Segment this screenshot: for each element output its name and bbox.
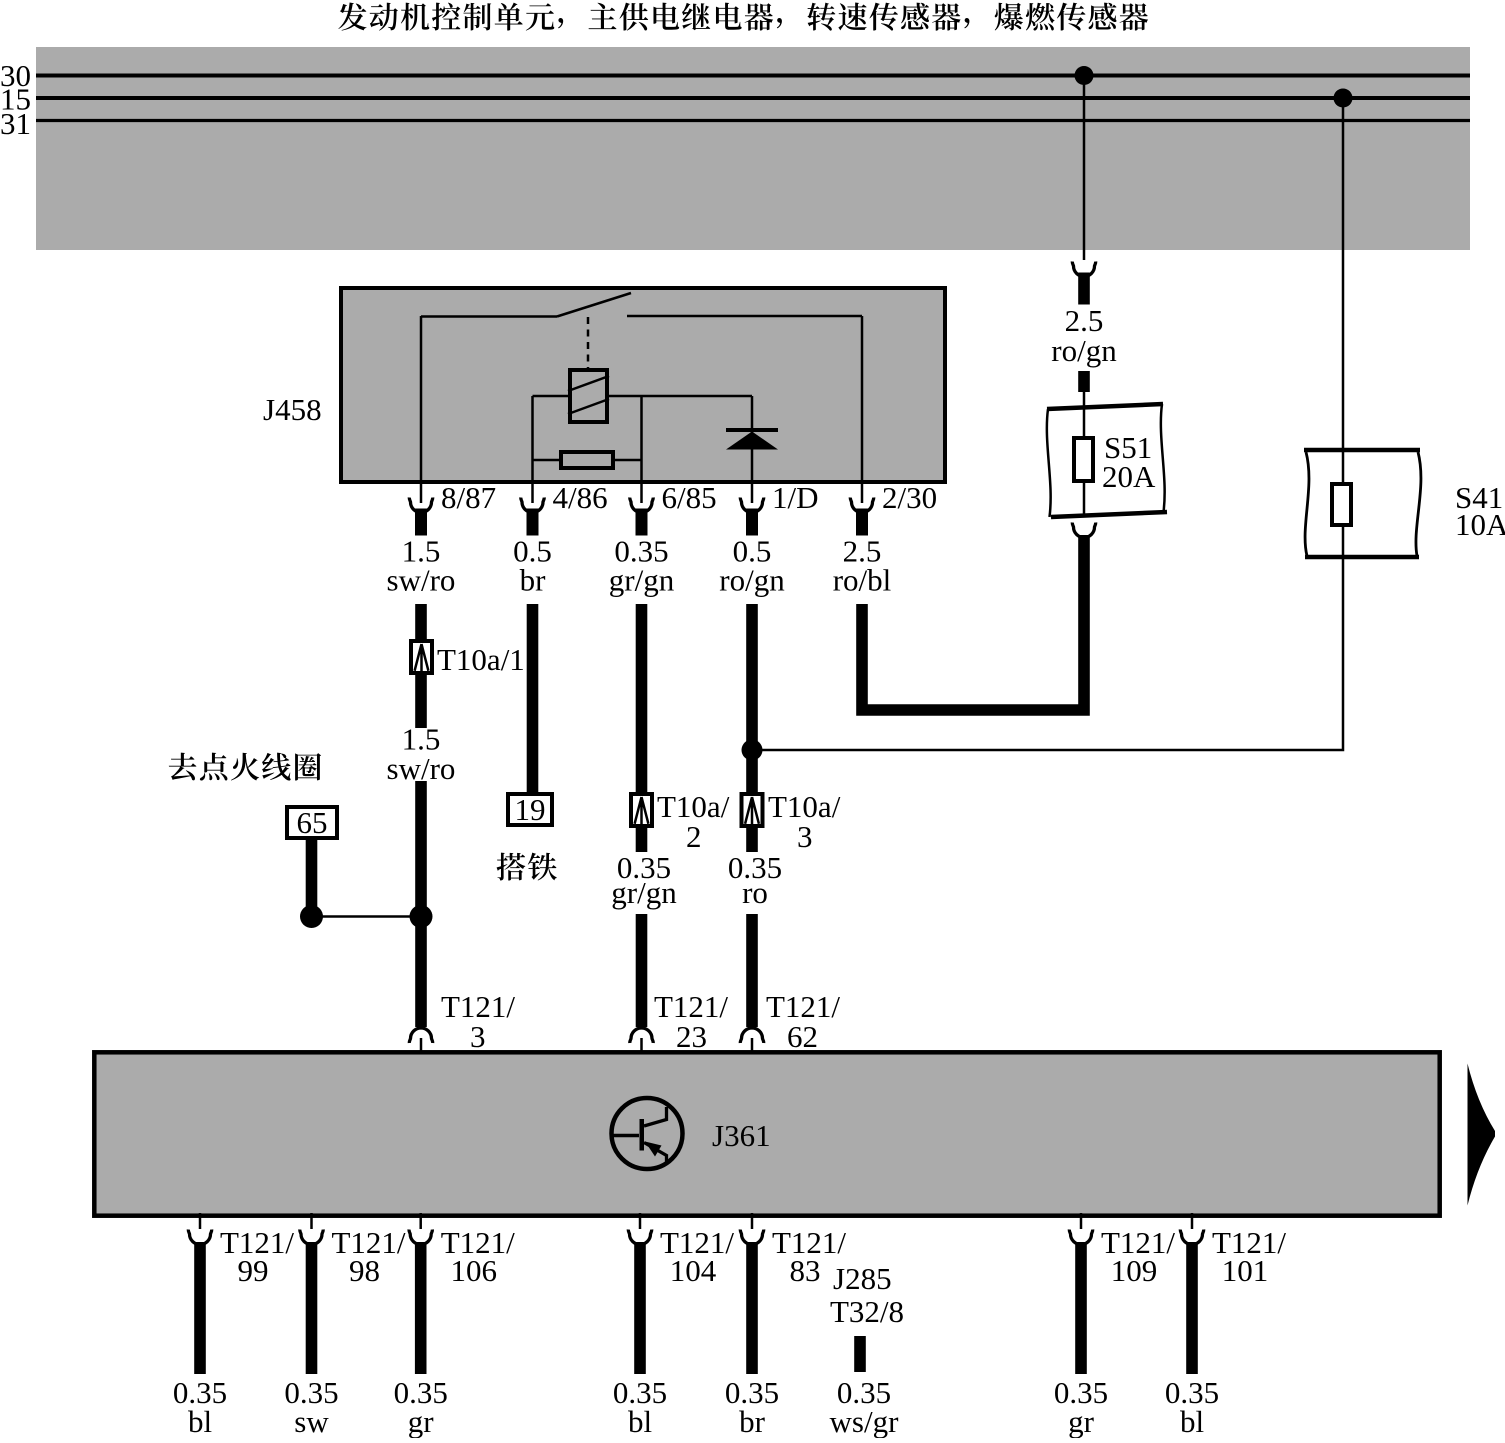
connector below S51 — [1072, 523, 1095, 538]
wire ro/gn to T10a/3 — [746, 750, 758, 792]
wire 0.35 bl — [1165, 1242, 1219, 1439]
junction node 65 wire — [300, 905, 323, 928]
wire label 0.35 gr/gn — [609, 534, 675, 598]
pin 6/85 connector — [630, 480, 717, 536]
wire switch left — [421, 315, 557, 318]
wire 0.35 sw — [284, 1242, 338, 1439]
wire label 1.5 sw/ro — [387, 722, 456, 787]
junction node sw/ro — [410, 905, 433, 928]
svg-text:1/D: 1/D — [772, 480, 819, 515]
svg-text:J458: J458 — [263, 392, 322, 427]
svg-text:4/86: 4/86 — [553, 480, 608, 515]
wire 0.35 bl — [613, 1242, 667, 1439]
svg-text:99: 99 — [238, 1253, 269, 1288]
svg-text:98: 98 — [349, 1253, 380, 1288]
wire resistor right — [615, 459, 642, 462]
pin T121/3 connector — [409, 989, 515, 1054]
junction node on bus 30 — [1075, 66, 1094, 85]
wire from bus 30 to S51 — [1083, 75, 1086, 260]
svg-text:bl: bl — [628, 1404, 652, 1438]
svg-text:2: 2 — [686, 819, 702, 854]
wire label 1.5 sw/ro — [387, 534, 456, 598]
wire 65 to sw/ro — [312, 915, 422, 918]
svg-text:bl: bl — [188, 1404, 212, 1438]
pin T121/83 connector — [740, 1213, 846, 1288]
junction node ro/gn — [742, 740, 763, 761]
resistor — [561, 452, 613, 468]
svg-text:3: 3 — [797, 819, 813, 854]
svg-text:31: 31 — [0, 106, 31, 141]
connector above S51 — [1072, 262, 1095, 277]
svg-text:ro/gn: ro/gn — [719, 563, 785, 598]
svg-text:83: 83 — [790, 1253, 821, 1288]
svg-text:62: 62 — [787, 1019, 818, 1054]
pin T121/109 connector — [1069, 1213, 1175, 1288]
wire stub 2.5 ro/gn — [1078, 273, 1090, 305]
wire label 0.35 ro — [728, 850, 782, 910]
wire ro middle — [746, 828, 758, 852]
pin T121/98 connector — [300, 1213, 406, 1288]
svg-text:6/85: 6/85 — [662, 480, 717, 515]
wire 0.35 ws/gr — [830, 1336, 900, 1439]
pin 4/86 connector — [521, 480, 608, 536]
svg-text:bl: bl — [1180, 1404, 1204, 1438]
pin 2/30 connector — [850, 480, 937, 536]
svg-text:3: 3 — [470, 1019, 486, 1054]
bus bar 15 — [0, 82, 1470, 117]
svg-text:109: 109 — [1111, 1253, 1158, 1288]
connector T10a/2 — [631, 789, 730, 854]
junction node on bus 15 — [1334, 89, 1353, 108]
fuse S51 20A — [1047, 392, 1167, 517]
ground terminal 19 — [508, 792, 552, 827]
svg-text:J285: J285 — [833, 1261, 892, 1296]
svg-text:19: 19 — [515, 792, 546, 827]
connector T10a/1 — [411, 641, 525, 677]
wire label 2.5 ro/gn — [1051, 303, 1117, 368]
wire coil right — [609, 395, 752, 398]
wire pin 2/30 vertical — [861, 316, 864, 503]
svg-text:8/87: 8/87 — [441, 480, 496, 515]
pin 8/87 connector — [409, 480, 496, 536]
wire pin 6/85 vertical — [640, 396, 643, 503]
svg-text:gr/gn: gr/gn — [609, 563, 675, 598]
pin T121/62 connector — [740, 989, 840, 1054]
wire switch right — [627, 315, 862, 318]
pin T121/104 connector — [628, 1213, 734, 1288]
svg-text:ws/gr: ws/gr — [830, 1404, 900, 1438]
wire br — [527, 604, 539, 792]
wire label 2.5 ro/bl — [833, 534, 892, 598]
svg-text:ro/bl: ro/bl — [833, 563, 892, 598]
wire ro/bl elbow to fuse S51 — [862, 535, 1084, 710]
wire from bus 15 through S41 to ro/gn junction — [758, 98, 1343, 750]
wire sw/ro lower — [415, 781, 427, 1027]
svg-text:23: 23 — [676, 1019, 707, 1054]
svg-text:20A: 20A — [1102, 459, 1156, 494]
pin T121/106 connector — [409, 1213, 515, 1288]
wire label 0.35 gr/gn — [611, 850, 677, 910]
svg-text:gr: gr — [1068, 1404, 1095, 1438]
svg-text:ro: ro — [742, 875, 768, 910]
wire resistor left — [533, 459, 560, 462]
svg-text:ro/gn: ro/gn — [1051, 333, 1117, 368]
wire pin 4/86 vertical — [531, 396, 534, 503]
power bus band — [36, 47, 1470, 250]
transistor symbol — [612, 1098, 683, 1169]
bus bar 30 — [0, 58, 1470, 93]
fuse S41 10A — [1304, 450, 1505, 557]
control unit J285 label — [830, 1261, 904, 1329]
bus bar 31 — [0, 106, 1470, 141]
svg-text:T10a/1: T10a/1 — [437, 642, 525, 677]
wire gr/gn upper — [636, 604, 648, 792]
svg-text:106: 106 — [450, 1253, 497, 1288]
relay J458 box — [263, 288, 945, 482]
terminal 65 box — [287, 805, 337, 840]
svg-text:gr: gr — [408, 1404, 435, 1438]
wire coil left — [533, 395, 569, 398]
control unit J361 box — [94, 1052, 1439, 1215]
wire sw/ro middle — [415, 675, 427, 728]
wire from 65 — [306, 840, 318, 910]
label ground text — [497, 853, 557, 881]
svg-text:br: br — [520, 563, 547, 598]
diode D1 — [726, 430, 778, 450]
wire pin 8/87 vertical — [420, 316, 423, 503]
pin T121/23 connector — [630, 989, 729, 1054]
svg-text:101: 101 — [1222, 1253, 1269, 1288]
svg-text:br: br — [739, 1404, 766, 1438]
switch blade — [557, 293, 631, 317]
wire label 0.5 ro/gn — [719, 534, 785, 598]
title text — [338, 3, 1148, 31]
wire 0.35 bl — [173, 1242, 227, 1439]
label to-ignition-coil text — [169, 753, 321, 781]
svg-text:J361: J361 — [712, 1118, 771, 1153]
wire ro/gn upper — [746, 604, 758, 750]
connector T10a/3 — [742, 789, 841, 854]
wire sw/ro upper — [415, 604, 427, 639]
svg-text:sw/ro: sw/ro — [387, 563, 456, 598]
arrow continuation right — [1468, 1064, 1496, 1206]
wire 0.35 gr — [394, 1242, 448, 1439]
relay actuator dashed link — [587, 317, 590, 368]
svg-text:10A: 10A — [1455, 507, 1505, 542]
pin T121/101 connector — [1180, 1213, 1286, 1288]
wire stub above fuse — [1078, 371, 1090, 392]
svg-text:sw: sw — [294, 1404, 329, 1438]
relay coil — [568, 370, 609, 422]
svg-text:gr/gn: gr/gn — [611, 875, 677, 910]
wire gr/gn middle — [636, 828, 648, 852]
wire ro lower — [746, 914, 758, 1027]
wire pin 1/D vertical — [751, 396, 754, 503]
wire label 0.5 br — [513, 534, 552, 598]
wire 0.35 gr — [1054, 1242, 1108, 1439]
wire 0.35 br — [725, 1242, 779, 1439]
pin 1/D connector — [740, 480, 818, 536]
svg-text:65: 65 — [297, 805, 328, 840]
wire gr/gn lower — [636, 914, 648, 1027]
svg-text:2/30: 2/30 — [882, 480, 937, 515]
svg-text:sw/ro: sw/ro — [387, 751, 456, 786]
pin T121/99 connector — [188, 1213, 294, 1288]
svg-text:104: 104 — [670, 1253, 717, 1288]
svg-text:T32/8: T32/8 — [830, 1294, 904, 1329]
